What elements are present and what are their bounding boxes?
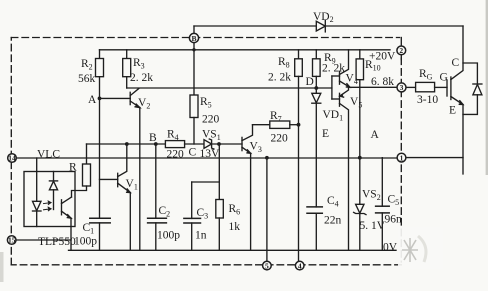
- wire terminal 1 to IGBT emitter: [406, 157, 463, 159]
- svg-text:C5: C5: [388, 194, 400, 208]
- svg-text:V2: V2: [138, 97, 150, 111]
- wire node B rail: [87, 143, 166, 145]
- svg-text:220: 220: [167, 149, 185, 161]
- resistor R2: [96, 50, 104, 218]
- svg-text:R: R: [69, 162, 77, 174]
- svg-text:220: 220: [271, 133, 289, 145]
- wire terminal B riser: [193, 26, 195, 95]
- svg-text:13V: 13V: [200, 148, 221, 160]
- svg-text:3: 3: [400, 83, 404, 92]
- svg-text:2. 2k: 2. 2k: [322, 63, 345, 75]
- svg-text:15: 15: [8, 236, 16, 245]
- node V1 collector junction: [125, 142, 129, 146]
- wire base of V2 from node A: [100, 97, 131, 99]
- node R7/R8 junction: [297, 123, 301, 127]
- svg-text:A: A: [88, 94, 97, 106]
- svg-text:R5: R5: [200, 96, 212, 110]
- light arrows: [44, 201, 52, 211]
- svg-text:E: E: [449, 105, 456, 117]
- svg-text:B: B: [149, 132, 157, 144]
- top supply wire: [194, 25, 463, 27]
- svg-text:6. 8k: 6. 8k: [371, 76, 394, 88]
- driver pair V4 V5 base tie: [332, 76, 340, 99]
- svg-text:22n: 22n: [324, 215, 342, 227]
- wire gate: [435, 86, 447, 88]
- terminal circle B: [189, 33, 198, 42]
- svg-text:RG: RG: [419, 68, 433, 82]
- svg-text:2. 2k: 2. 2k: [268, 72, 291, 84]
- svg-text:2: 2: [399, 46, 403, 55]
- wire terminal 15: [16, 239, 71, 241]
- svg-text:96n: 96n: [385, 214, 403, 226]
- wire R4 to zener: [185, 143, 204, 145]
- resistor R10: [356, 50, 363, 205]
- svg-text:VD1: VD1: [323, 109, 344, 123]
- svg-text:D: D: [306, 76, 314, 88]
- node D: [314, 86, 318, 90]
- resistor R (opto pull-up): [72, 144, 91, 197]
- transistor V5: [340, 87, 349, 250]
- terminal circle 1: [397, 153, 406, 162]
- freewheel diode: [463, 63, 482, 114]
- capacitor C4: [307, 207, 322, 250]
- terminal circle 4: [295, 261, 304, 270]
- svg-text:C: C: [452, 57, 460, 69]
- wire zener to V3 base: [212, 143, 242, 145]
- phototransistor: [62, 197, 72, 250]
- resistor R8: [295, 50, 303, 262]
- svg-text:VS1: VS1: [202, 129, 221, 143]
- svg-text:R3: R3: [133, 57, 145, 71]
- svg-text:1k: 1k: [229, 221, 241, 233]
- svg-text:E: E: [322, 128, 329, 140]
- svg-text:G: G: [440, 72, 448, 84]
- svg-text:56k: 56k: [78, 73, 96, 85]
- capacitor C5: [376, 158, 390, 251]
- terminal circle 2: [397, 46, 406, 55]
- 0V bottom rail: [69, 249, 397, 251]
- node after zener: [217, 142, 221, 146]
- svg-text:5: 5: [265, 261, 269, 270]
- capacitor C3: [184, 182, 219, 250]
- terminal circle 3: [397, 83, 406, 92]
- svg-text:R4: R4: [167, 129, 179, 143]
- transistor V3: [242, 125, 253, 251]
- zener VS1: [204, 139, 214, 149]
- wire driver output to terminal 3: [350, 86, 397, 88]
- svg-text:5. 1V: 5. 1V: [360, 220, 386, 232]
- resistor R4: [165, 141, 184, 148]
- svg-text:C4: C4: [327, 195, 339, 209]
- svg-text:B: B: [191, 34, 196, 43]
- svg-text:V1: V1: [126, 178, 138, 192]
- node junction on top rail: [192, 48, 195, 51]
- scan edge artifacts: [486, 0, 488, 175]
- protection diode inside optocoupler: [49, 172, 57, 210]
- terminal circle 14: [8, 154, 17, 163]
- svg-text:100p: 100p: [74, 236, 97, 248]
- svg-text:0V: 0V: [383, 242, 398, 254]
- terminal circle 5: [263, 261, 272, 270]
- long return wire terminal 14 to terminal 1: [16, 157, 397, 159]
- svg-text:3-10: 3-10: [417, 94, 438, 106]
- svg-text:220: 220: [202, 114, 220, 126]
- resistor R9: [313, 50, 321, 88]
- svg-text:1n: 1n: [195, 230, 207, 242]
- transistor V4: [340, 50, 351, 88]
- svg-text:R7: R7: [270, 110, 282, 124]
- svg-text:V3: V3: [250, 141, 262, 155]
- svg-text:VD2: VD2: [313, 11, 334, 24]
- svg-text:C: C: [189, 147, 197, 159]
- wire terminal 5 riser: [266, 158, 268, 262]
- svg-text:R8: R8: [278, 56, 290, 70]
- resistor R7: [253, 121, 299, 128]
- wire terminal 3 to gate resistor: [406, 86, 416, 88]
- wire terminal 4 riser: [298, 250, 300, 261]
- IGBT: [447, 26, 463, 174]
- resistor R6: [216, 144, 224, 250]
- svg-text:C2: C2: [159, 205, 171, 219]
- svg-text:C3: C3: [197, 207, 209, 221]
- capacitor C2: [148, 144, 167, 250]
- svg-text:C1: C1: [83, 222, 95, 236]
- LED inside optocoupler: [33, 201, 42, 226]
- transistor V2: [130, 89, 140, 251]
- resistor R5: [190, 95, 198, 144]
- wire drop into optocoupler LED: [36, 158, 38, 201]
- node A: [98, 97, 102, 101]
- svg-text:R2: R2: [81, 58, 93, 72]
- svg-text:4: 4: [298, 261, 302, 270]
- svg-text:VLC: VLC: [37, 149, 60, 161]
- svg-text:100p: 100p: [157, 230, 180, 242]
- svg-text:A: A: [371, 129, 380, 141]
- svg-text:+20V: +20V: [369, 51, 396, 63]
- svg-text:TLP550: TLP550: [38, 236, 76, 248]
- svg-text:R6: R6: [229, 203, 241, 217]
- optocoupler TLP550 box: [24, 172, 75, 227]
- wire collector bus to driver bases: [127, 87, 332, 89]
- svg-text:1: 1: [400, 153, 404, 162]
- node at C2 top / B: [154, 142, 158, 146]
- internal +20V rail: [100, 49, 391, 51]
- resistor RG: [416, 82, 435, 91]
- dashed enclosure border: [11, 38, 401, 265]
- watermark blob bottom right: [398, 227, 443, 269]
- svg-text:2. 2k: 2. 2k: [130, 72, 153, 84]
- svg-text:14: 14: [8, 154, 16, 163]
- terminal numbers: [8, 34, 404, 270]
- node R10 on return wire: [358, 156, 362, 160]
- diode VD1: [312, 88, 321, 207]
- zener VS2: [354, 204, 366, 250]
- resistor R3: [123, 50, 131, 88]
- transistor V1: [100, 144, 131, 250]
- capacitor C1: [90, 218, 110, 250]
- terminal circle 15: [7, 236, 16, 245]
- svg-text:VS2: VS2: [362, 189, 381, 203]
- border corner stub to terminal 2: [400, 38, 402, 47]
- diode VD2: [316, 20, 325, 32]
